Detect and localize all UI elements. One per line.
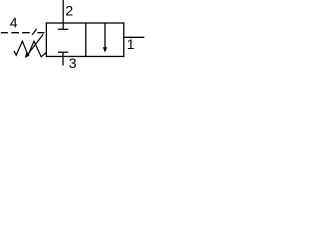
blocked port 3 crossbar (58, 51, 68, 53)
flow arrow head (103, 47, 107, 52)
svg-text:4: 4 (10, 14, 18, 30)
valve position divider (85, 23, 87, 56)
spring adjustment arrow head (25, 53, 30, 59)
pilot adjustment slash (32, 29, 37, 35)
spring zigzag (14, 41, 46, 57)
blocked port 2 crossbar (58, 28, 68, 30)
svg-text:2: 2 (65, 2, 73, 18)
port 2 line (62, 0, 64, 29)
port 3 line (62, 52, 64, 65)
valve body outer rectangle (46, 23, 123, 56)
flow arrow shaft (104, 23, 106, 49)
pilot line dashed (port 4) (1, 32, 45, 34)
port 1 line (124, 36, 145, 38)
svg-text:1: 1 (127, 36, 135, 52)
svg-text:3: 3 (69, 55, 77, 71)
spring adjustment arrow shaft (28, 34, 43, 54)
